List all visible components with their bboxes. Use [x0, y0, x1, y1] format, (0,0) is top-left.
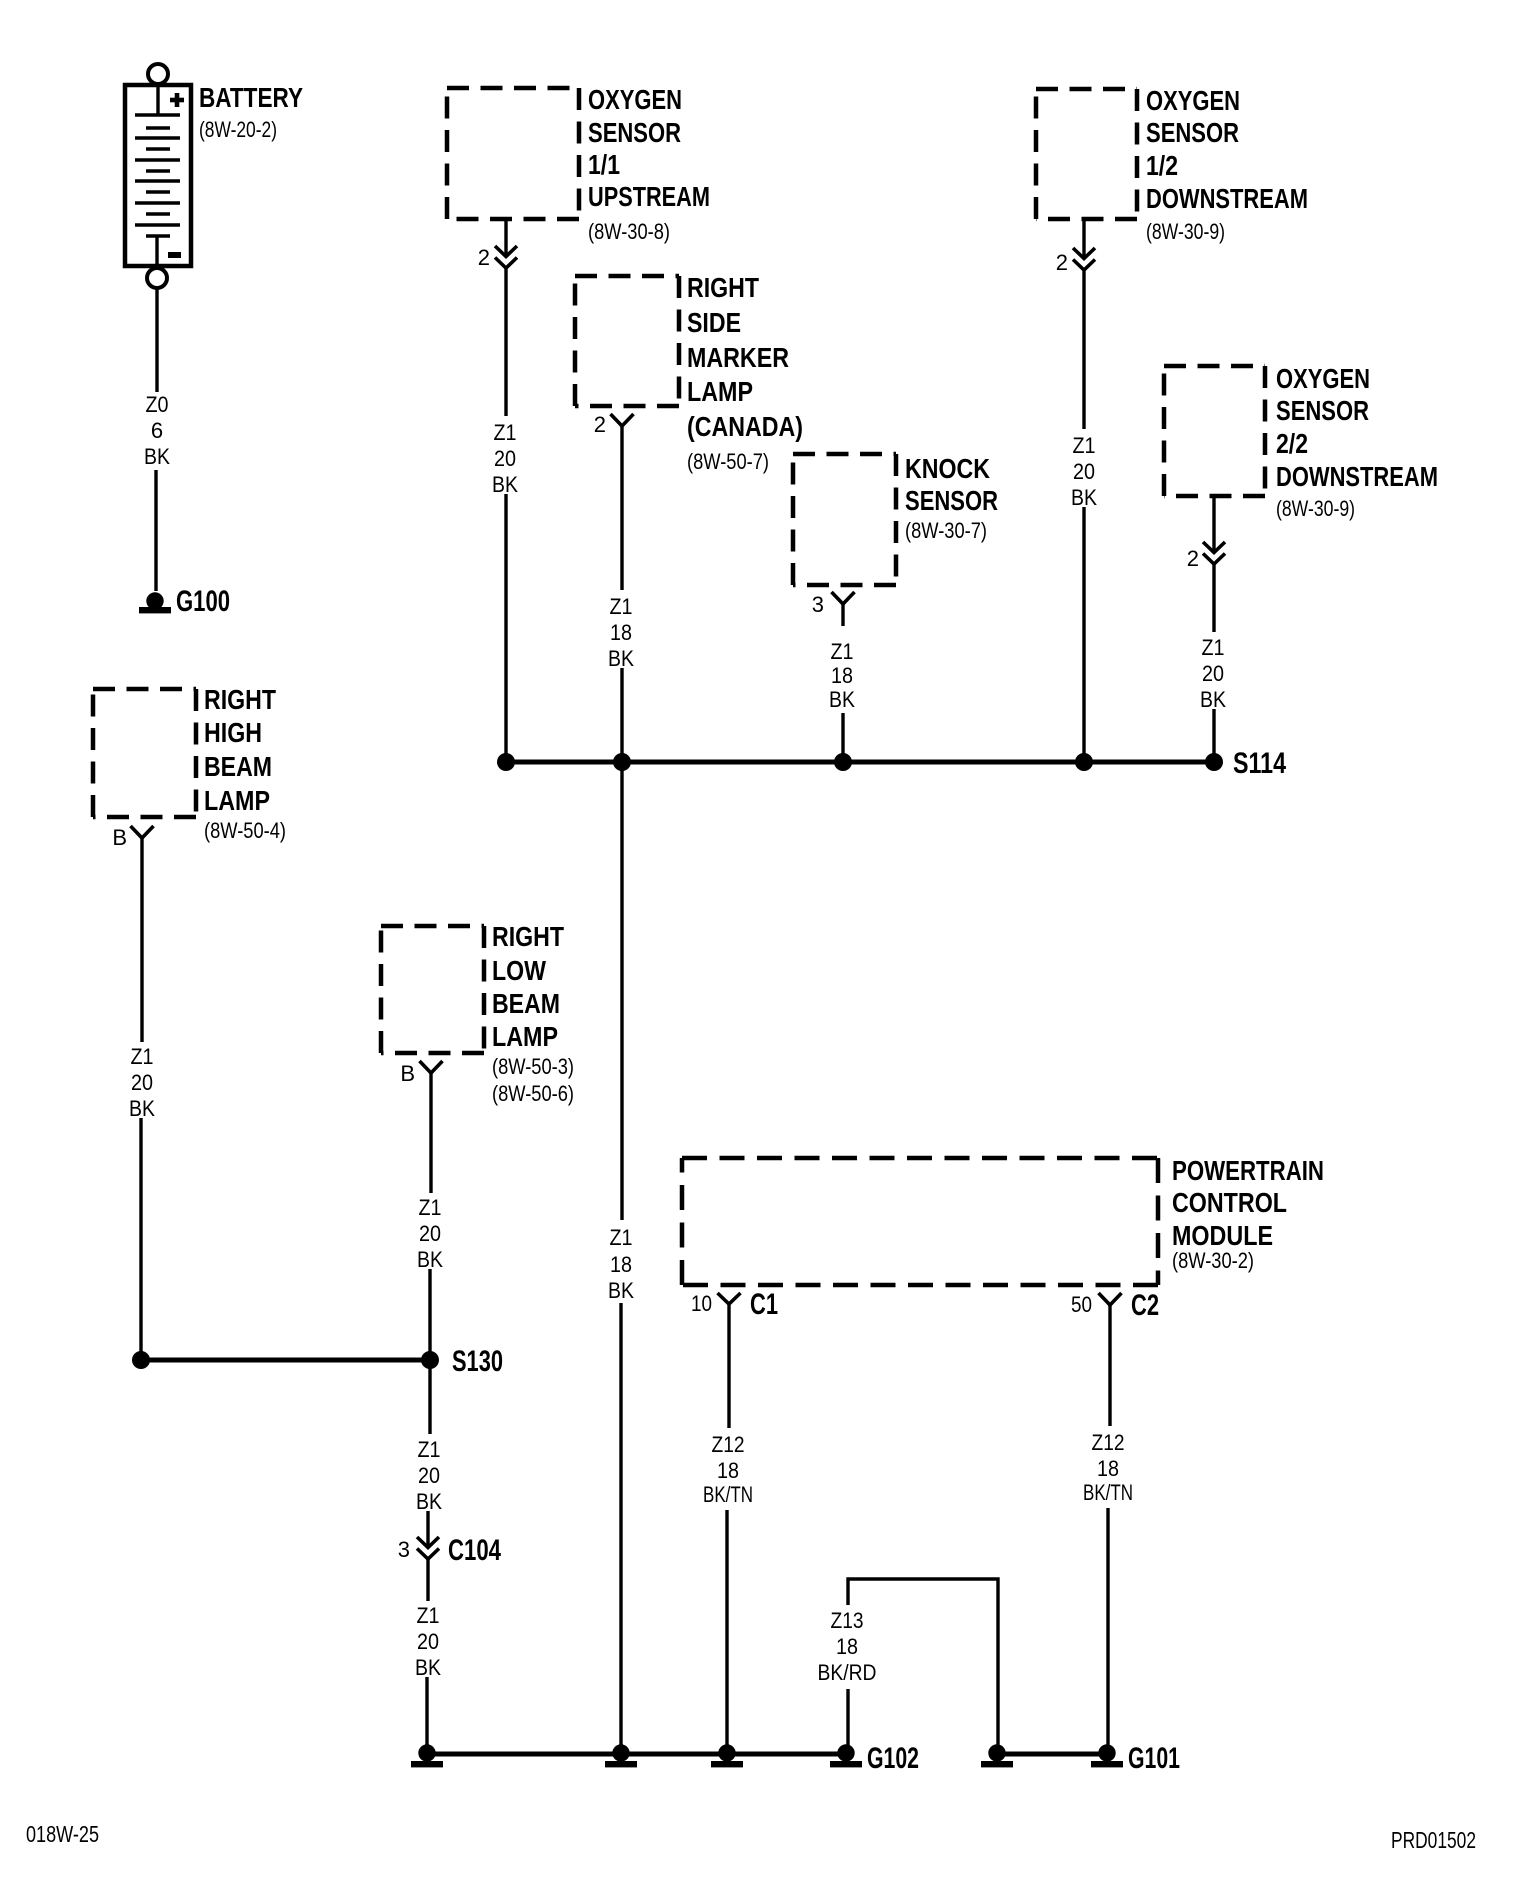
svg-text:B: B — [112, 825, 127, 850]
svg-text:BK: BK — [492, 472, 518, 497]
connector C104 pin 3 — [398, 1534, 501, 1567]
svg-text:PRD01502: PRD01502 — [1391, 1827, 1476, 1853]
svg-text:C2: C2 — [1131, 1289, 1159, 1322]
svg-text:6: 6 — [151, 418, 163, 443]
svg-text:Z1: Z1 — [610, 1225, 633, 1250]
svg-text:18: 18 — [717, 1458, 739, 1483]
svg-text:(8W-30-7): (8W-30-7) — [905, 518, 987, 543]
lamp right low beam — [381, 926, 484, 1053]
svg-text:Z1: Z1 — [131, 1044, 154, 1069]
splice S130 bus — [132, 1345, 503, 1378]
svg-text:G102: G102 — [867, 1742, 919, 1775]
oxygen sensor 2/2 downstream — [1164, 366, 1265, 496]
wire battery to G100, Z0 6 BK — [144, 288, 170, 591]
svg-text:2: 2 — [594, 412, 606, 437]
svg-text:BK: BK — [608, 646, 634, 671]
oxygen sensor 2/2 labels — [1276, 363, 1438, 521]
wire marker to S114, Z1 18 BK — [608, 426, 634, 762]
ground G100 — [139, 585, 230, 618]
ground G101 — [1091, 1742, 1180, 1775]
svg-text:2: 2 — [1187, 546, 1199, 571]
svg-text:2: 2 — [478, 245, 490, 270]
svg-text:OXYGEN: OXYGEN — [588, 84, 682, 115]
svg-text:LAMP: LAMP — [687, 376, 753, 407]
svg-text:OXYGEN: OXYGEN — [1276, 363, 1370, 394]
lamp right high beam — [93, 689, 196, 817]
svg-text:POWERTRAIN: POWERTRAIN — [1172, 1155, 1324, 1186]
svg-text:LAMP: LAMP — [492, 1021, 558, 1052]
ground junction marker wire — [605, 1744, 637, 1767]
svg-text:BK/RD: BK/RD — [818, 1660, 877, 1685]
svg-text:Z1: Z1 — [494, 420, 517, 445]
svg-text:MARKER: MARKER — [687, 342, 789, 373]
oxygen sensor 1/1 upstream — [447, 88, 579, 219]
wire right high beam to S130, Z1 20 BK — [129, 838, 155, 1357]
svg-text:BK: BK — [608, 1278, 634, 1303]
powertrain control module — [682, 1158, 1158, 1285]
svg-text:C1: C1 — [750, 1288, 778, 1321]
svg-text:(8W-30-9): (8W-30-9) — [1276, 496, 1355, 521]
svg-text:BK/TN: BK/TN — [1083, 1480, 1133, 1505]
svg-text:BK: BK — [129, 1096, 155, 1121]
svg-text:MODULE: MODULE — [1172, 1220, 1273, 1251]
svg-text:2: 2 — [1056, 250, 1068, 275]
svg-text:18: 18 — [831, 663, 853, 688]
ground G102 — [830, 1742, 919, 1775]
svg-text:BK: BK — [829, 687, 855, 712]
wire C104 to G102 bus, Z1 20 BK — [415, 1559, 441, 1747]
svg-text:1/1: 1/1 — [588, 149, 620, 180]
right high beam labels — [204, 684, 286, 843]
svg-text:BK: BK — [415, 1655, 441, 1680]
wire oxygen 1/2 to connector — [1082, 219, 1085, 258]
svg-text:1/2: 1/2 — [1146, 150, 1178, 181]
svg-text:UPSTREAM: UPSTREAM — [588, 181, 710, 212]
svg-text:20: 20 — [494, 446, 516, 471]
svg-text:(8W-20-2): (8W-20-2) — [199, 117, 277, 142]
svg-text:S114: S114 — [1233, 747, 1286, 780]
splice S114 bus — [497, 747, 1286, 780]
wire oxygen 2/2 to connector — [1212, 496, 1215, 552]
oxygen sensor 1/2 downstream — [1036, 89, 1137, 219]
wire right low beam to S130, Z1 20 BK — [417, 1073, 443, 1357]
svg-text:20: 20 — [419, 1221, 441, 1246]
svg-text:BEAM: BEAM — [204, 751, 272, 782]
svg-text:SENSOR: SENSOR — [1146, 117, 1239, 148]
svg-text:B: B — [400, 1061, 415, 1086]
inline connector pin 2 of oxygen 2/2 — [1187, 542, 1225, 571]
wire knock to S114, Z1 18 BK — [829, 604, 855, 758]
ground junction C104 wire — [411, 1744, 443, 1767]
svg-text:SENSOR: SENSOR — [1276, 395, 1369, 426]
svg-text:18: 18 — [836, 1634, 858, 1659]
svg-text:SIDE: SIDE — [687, 307, 741, 338]
svg-text:(8W-50-4): (8W-50-4) — [204, 818, 286, 843]
svg-text:(8W-50-3): (8W-50-3) — [492, 1054, 574, 1079]
svg-text:Z1: Z1 — [419, 1195, 442, 1220]
wire oxygen 1/2 to S114, Z1 20 BK — [1071, 270, 1097, 758]
svg-text:20: 20 — [1202, 661, 1224, 686]
svg-text:18: 18 — [610, 620, 632, 645]
svg-text:3: 3 — [398, 1537, 410, 1562]
svg-text:DOWNSTREAM: DOWNSTREAM — [1276, 461, 1438, 492]
pin B of right high beam — [112, 825, 153, 850]
wire oxygen 1/1 to S114, Z1 20 BK — [492, 268, 518, 758]
wire PCM C2 to G101, Z12 18 BK/TN — [1083, 1305, 1133, 1747]
wire S130 to C104, Z1 20 BK — [416, 1360, 442, 1547]
inline connector pin 2 of oxygen 1/1 — [478, 245, 517, 270]
svg-text:18: 18 — [1097, 1456, 1119, 1481]
svg-text:RIGHT: RIGHT — [204, 684, 276, 715]
svg-text:18: 18 — [610, 1252, 632, 1277]
svg-text:20: 20 — [1073, 459, 1095, 484]
svg-text:Z1: Z1 — [417, 1603, 440, 1628]
svg-text:20: 20 — [131, 1070, 153, 1095]
svg-text:BK: BK — [1200, 687, 1226, 712]
pin 10 connector C1 of PCM — [691, 1288, 778, 1321]
svg-text:(8W-50-6): (8W-50-6) — [492, 1081, 574, 1106]
svg-text:2/2: 2/2 — [1276, 428, 1308, 459]
wire Z13 18 BK/RD jumper G102 to G101 — [818, 1579, 999, 1748]
wire marker S114 to ground bus, Z1 18 BK — [608, 762, 634, 1747]
svg-text:Z1: Z1 — [831, 639, 854, 664]
battery B1 — [125, 64, 303, 288]
svg-text:BK: BK — [416, 1489, 442, 1514]
right side marker labels — [687, 272, 803, 474]
svg-text:HIGH: HIGH — [204, 717, 262, 748]
pin 2 of right side marker — [594, 412, 634, 437]
wire oxygen 2/2 to S114, Z1 20 BK — [1200, 564, 1226, 758]
knock sensor — [793, 454, 896, 585]
lamp right side marker (canada) — [575, 276, 679, 406]
svg-text:(8W-50-7): (8W-50-7) — [687, 449, 769, 474]
svg-text:Z1: Z1 — [610, 594, 633, 619]
svg-text:Z0: Z0 — [146, 392, 169, 417]
ground bus G102 — [427, 1752, 846, 1757]
svg-text:DOWNSTREAM: DOWNSTREAM — [1146, 183, 1308, 214]
svg-text:(8W-30-9): (8W-30-9) — [1146, 219, 1225, 244]
svg-text:KNOCK: KNOCK — [905, 453, 990, 484]
ground junction Z13 wire — [981, 1744, 1013, 1767]
svg-text:(8W-30-8): (8W-30-8) — [588, 219, 670, 244]
svg-text:50: 50 — [1071, 1292, 1092, 1317]
svg-text:C104: C104 — [448, 1534, 501, 1567]
oxygen sensor 1/1 labels — [588, 84, 710, 244]
svg-text:BATTERY: BATTERY — [199, 82, 303, 113]
svg-text:(8W-30-2): (8W-30-2) — [1172, 1248, 1254, 1273]
wire PCM C1 to G102, Z12 18 BK/TN — [703, 1304, 753, 1747]
wire oxygen 1/1 to connector — [504, 219, 507, 256]
svg-text:G100: G100 — [176, 585, 230, 618]
ground bus G101 — [997, 1752, 1107, 1757]
svg-text:SENSOR: SENSOR — [588, 117, 681, 148]
svg-text:Z12: Z12 — [1092, 1430, 1125, 1455]
svg-text:Z12: Z12 — [712, 1432, 745, 1457]
svg-text:BK/TN: BK/TN — [703, 1482, 753, 1507]
svg-text:BK: BK — [417, 1247, 443, 1272]
svg-text:LOW: LOW — [492, 955, 546, 986]
knock sensor labels — [905, 453, 998, 543]
svg-text:(CANADA): (CANADA) — [687, 411, 803, 442]
svg-text:BEAM: BEAM — [492, 988, 560, 1019]
svg-text:CONTROL: CONTROL — [1172, 1187, 1287, 1218]
svg-text:LAMP: LAMP — [204, 785, 270, 816]
right low beam labels — [492, 921, 574, 1106]
svg-text:Z1: Z1 — [1073, 433, 1096, 458]
svg-text:RIGHT: RIGHT — [492, 921, 564, 952]
svg-text:SENSOR: SENSOR — [905, 485, 998, 516]
pin B of right low beam — [400, 1061, 442, 1086]
svg-text:BK: BK — [1071, 485, 1097, 510]
svg-text:20: 20 — [417, 1629, 439, 1654]
svg-text:018W-25: 018W-25 — [26, 1821, 99, 1847]
svg-text:BK: BK — [144, 444, 170, 469]
svg-text:3: 3 — [812, 592, 824, 617]
pin 50 connector C2 of PCM — [1071, 1289, 1159, 1322]
ground junction C1 wire — [711, 1744, 743, 1767]
svg-text:S130: S130 — [452, 1345, 503, 1378]
pin 3 of knock sensor — [812, 592, 855, 617]
svg-text:Z1: Z1 — [418, 1437, 441, 1462]
svg-text:Z13: Z13 — [831, 1608, 864, 1633]
svg-text:G101: G101 — [1128, 1742, 1180, 1775]
svg-text:Z1: Z1 — [1202, 635, 1225, 660]
svg-text:20: 20 — [418, 1463, 440, 1488]
svg-text:RIGHT: RIGHT — [687, 272, 759, 303]
oxygen sensor 1/2 labels — [1146, 85, 1308, 244]
svg-text:OXYGEN: OXYGEN — [1146, 85, 1240, 116]
inline connector pin 2 of oxygen 1/2 — [1056, 248, 1095, 275]
svg-text:10: 10 — [691, 1291, 712, 1316]
powertrain control module labels — [1172, 1155, 1324, 1273]
